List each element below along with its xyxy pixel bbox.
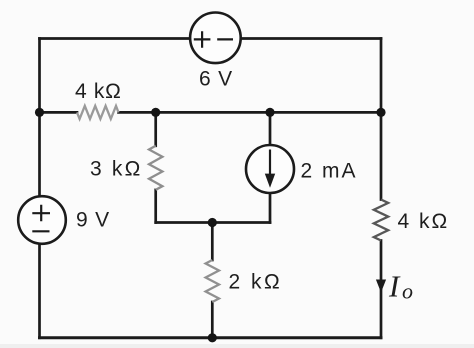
- svg-text:I: I: [388, 268, 401, 303]
- svg-text:2 kΩ: 2 kΩ: [229, 271, 283, 294]
- svg-text:9 V: 9 V: [76, 208, 110, 231]
- svg-text:3 kΩ: 3 kΩ: [90, 157, 143, 180]
- svg-text:4 kΩ: 4 kΩ: [398, 210, 450, 233]
- svg-text:o: o: [402, 279, 413, 304]
- svg-text:6 V: 6 V: [199, 67, 233, 90]
- svg-text:2 mA: 2 mA: [301, 159, 358, 182]
- svg-text:4 kΩ: 4 kΩ: [75, 80, 122, 103]
